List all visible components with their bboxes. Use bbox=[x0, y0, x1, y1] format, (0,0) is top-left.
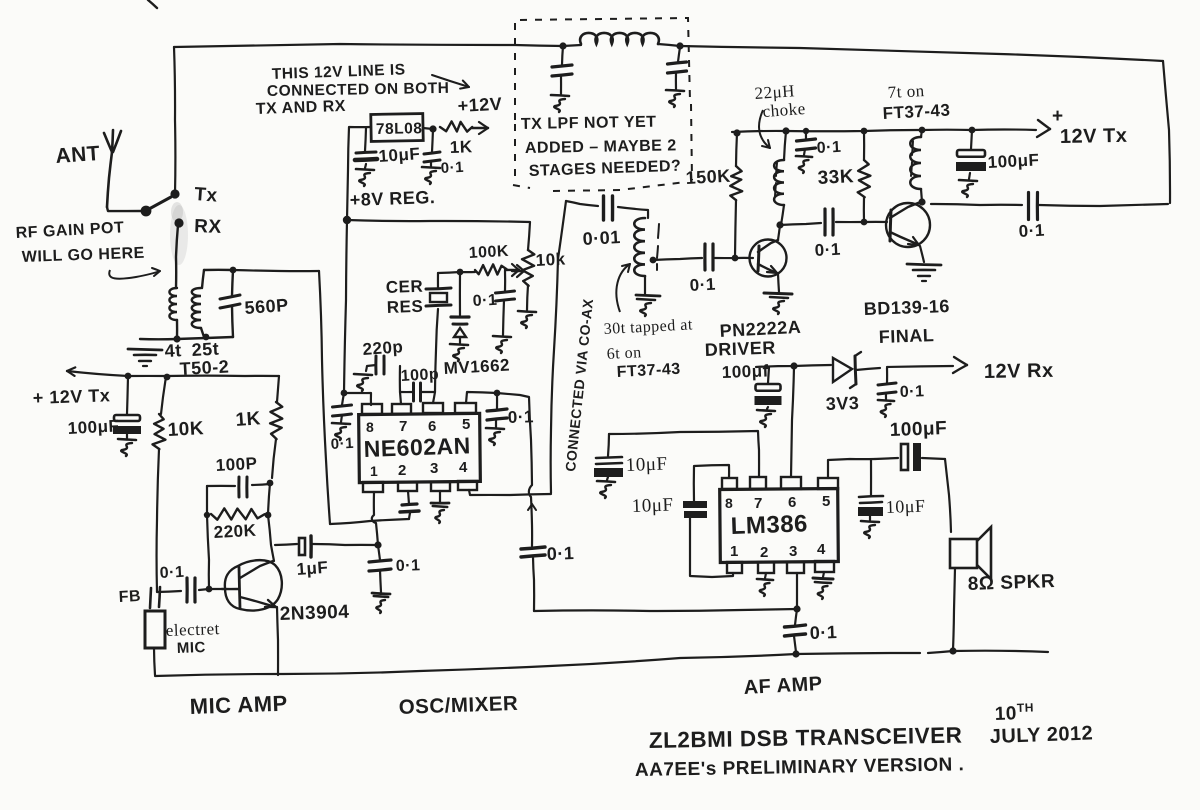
svg-text:10k: 10k bbox=[535, 249, 566, 270]
node Tx bbox=[170, 189, 179, 198]
capacitor 10uF AF in bbox=[594, 434, 623, 498]
svg-text:0·1: 0·1 bbox=[440, 159, 464, 177]
node bbox=[676, 42, 683, 49]
label 10uF bbox=[378, 144, 421, 166]
svg-text:0·1: 0·1 bbox=[159, 564, 184, 582]
capacitor 100p bbox=[207, 477, 270, 515]
capacitor 0.1 regulator bbox=[422, 129, 440, 184]
label TX AND RX bbox=[256, 98, 347, 118]
pin 7 bbox=[750, 477, 766, 489]
pin label 1 bbox=[370, 463, 378, 479]
pin label 3 bbox=[789, 543, 798, 560]
node bbox=[494, 390, 501, 397]
label CER RES bbox=[385, 277, 423, 317]
svg-text:MV1662: MV1662 bbox=[443, 356, 510, 378]
svg-text:FT37-43: FT37-43 bbox=[616, 361, 681, 381]
wire bbox=[1039, 204, 1168, 206]
pin label 5 bbox=[462, 416, 471, 433]
svg-text:NE602AN: NE602AN bbox=[363, 432, 471, 462]
svg-text:5: 5 bbox=[822, 493, 831, 510]
label 25t bbox=[191, 339, 220, 360]
svg-text:3: 3 bbox=[789, 543, 798, 560]
node bbox=[861, 128, 868, 135]
svg-text:10μF: 10μF bbox=[885, 496, 925, 517]
node bbox=[861, 219, 868, 226]
pin label 8 bbox=[366, 419, 374, 435]
wire pin6 up bbox=[433, 309, 438, 403]
op-amp U2 LM386 body bbox=[720, 488, 839, 562]
node bbox=[790, 362, 797, 369]
label NE602AN bbox=[363, 432, 471, 462]
svg-text:100P: 100P bbox=[215, 454, 258, 475]
capacitor 0.1 choke bypass bbox=[796, 131, 816, 173]
svg-text:0·1: 0·1 bbox=[1018, 221, 1045, 241]
svg-text:100μF: 100μF bbox=[987, 150, 1040, 172]
node bbox=[792, 650, 799, 657]
resistor 100K bbox=[460, 264, 507, 275]
svg-text:0·1: 0·1 bbox=[472, 292, 497, 310]
svg-text:TH: TH bbox=[1017, 700, 1034, 715]
svg-text:LM386: LM386 bbox=[730, 510, 808, 540]
transformer 4t winding bbox=[169, 288, 177, 339]
svg-text:1K: 1K bbox=[235, 408, 262, 431]
wire bbox=[170, 202, 188, 265]
svg-text:+8V REG.: +8V REG. bbox=[349, 187, 435, 210]
label 0.1 bbox=[1018, 221, 1045, 241]
arrow to RF gain point bbox=[109, 268, 160, 279]
resistor 220K bbox=[204, 508, 265, 519]
label 1K bbox=[449, 137, 473, 157]
pin label 2 bbox=[398, 462, 407, 479]
svg-text:7t on: 7t on bbox=[887, 81, 925, 102]
svg-text:RES: RES bbox=[386, 297, 423, 317]
capacitor 0.1 RX rail bbox=[878, 368, 896, 417]
wire bbox=[680, 46, 1163, 61]
wire bbox=[207, 515, 209, 589]
svg-text:AF AMP: AF AMP bbox=[743, 673, 823, 699]
svg-text:8: 8 bbox=[725, 495, 733, 511]
arrow +12V TX bbox=[972, 120, 1050, 137]
label 7t on bbox=[887, 81, 925, 102]
pin label 6 bbox=[428, 418, 437, 435]
capacitor 100uF RX rail bbox=[755, 367, 782, 427]
svg-text:3V3: 3V3 bbox=[825, 393, 859, 414]
svg-text:10μF: 10μF bbox=[625, 454, 667, 476]
svg-text:ADDED – MAYBE 2: ADDED – MAYBE 2 bbox=[525, 137, 677, 157]
wire top RF rail bbox=[174, 44, 563, 47]
wire bbox=[347, 127, 371, 220]
node bbox=[429, 125, 436, 132]
svg-text:0·1: 0·1 bbox=[809, 622, 837, 643]
capacitor 0.1 osc bbox=[493, 271, 515, 353]
label T50-2 bbox=[179, 356, 230, 379]
wire bbox=[618, 207, 648, 218]
label MIC AMP bbox=[189, 691, 288, 719]
label 150K bbox=[685, 166, 731, 188]
capacitor 100uF speaker bbox=[875, 443, 945, 471]
svg-text:OSC/MIXER: OSC/MIXER bbox=[398, 692, 518, 719]
label 3V3 bbox=[825, 393, 859, 414]
svg-text:0·1: 0·1 bbox=[546, 543, 574, 564]
label PN2222A bbox=[719, 317, 801, 341]
label 0.1 bbox=[809, 622, 837, 643]
svg-text:FINAL: FINAL bbox=[878, 325, 934, 347]
label DRIVER bbox=[704, 338, 776, 360]
node bbox=[803, 128, 809, 134]
node bbox=[173, 335, 180, 342]
svg-text:1K: 1K bbox=[449, 137, 473, 157]
label 22uH bbox=[754, 81, 796, 103]
svg-text:MIC AMP: MIC AMP bbox=[189, 691, 288, 719]
op-amp U1 NE602AN body bbox=[359, 413, 481, 482]
capacitor 0.1 TX out bbox=[1029, 193, 1038, 220]
capacitor pin2 bypass bbox=[400, 491, 419, 519]
label 1K bbox=[235, 408, 262, 431]
ferrite bead FB bbox=[150, 587, 160, 608]
label 0.01 bbox=[582, 227, 621, 249]
svg-text:1: 1 bbox=[730, 543, 739, 560]
capacitor 0.1 AF coupling bbox=[521, 547, 545, 611]
svg-text:3: 3 bbox=[430, 460, 439, 477]
wire pin5 out bbox=[828, 459, 875, 478]
capacitor 10uF zobel bbox=[858, 460, 883, 538]
label FINAL bbox=[878, 325, 934, 347]
svg-text:FT37-43: FT37-43 bbox=[882, 100, 951, 123]
capacitor 220p bbox=[354, 356, 384, 391]
pin 4 bbox=[458, 481, 477, 490]
capacitor 0.1 pin5 bbox=[486, 393, 507, 445]
wire bbox=[148, 0, 157, 8]
inductor 7t bbox=[910, 130, 922, 202]
label 100p bbox=[215, 454, 258, 475]
pin3 NE602 ground bbox=[431, 491, 449, 523]
label 10uF bbox=[885, 496, 925, 517]
svg-text:6: 6 bbox=[788, 494, 797, 511]
label 12V RX bbox=[984, 360, 1054, 383]
pin label 4 bbox=[459, 459, 468, 476]
pin label 2 bbox=[760, 544, 769, 561]
node bbox=[230, 267, 237, 274]
svg-text:1: 1 bbox=[370, 463, 378, 479]
svg-text:0·1: 0·1 bbox=[689, 275, 716, 295]
node Rx bbox=[174, 218, 183, 227]
wire bbox=[836, 221, 887, 223]
label 10K bbox=[535, 249, 566, 270]
wire pin7 up bbox=[400, 366, 401, 404]
node bbox=[206, 586, 213, 593]
pin label 1 bbox=[730, 543, 739, 560]
wire +8V rail bbox=[347, 220, 530, 250]
svg-text:choke: choke bbox=[762, 99, 806, 121]
label FT37-43 bbox=[882, 100, 951, 123]
wire bbox=[609, 431, 759, 477]
node bbox=[793, 605, 800, 612]
node bbox=[559, 42, 566, 49]
svg-text:TX LPF NOT YET: TX LPF NOT YET bbox=[521, 114, 657, 133]
zener diode 3V3 bbox=[833, 352, 880, 388]
pin 2 bbox=[758, 562, 774, 573]
pin 8 bbox=[722, 478, 737, 489]
svg-text:JULY 2012: JULY 2012 bbox=[989, 722, 1093, 748]
pin label 6 bbox=[788, 494, 797, 511]
transistor Q2 PN2222 driver bbox=[750, 225, 793, 314]
pin label 4 bbox=[817, 541, 826, 558]
pin 5 bbox=[455, 403, 476, 413]
node bbox=[164, 374, 171, 381]
wire bottom rail bbox=[155, 653, 920, 676]
inductor 22uH choke bbox=[774, 131, 786, 225]
potentiometer 10K bbox=[518, 250, 536, 328]
label CONNECTED ON BOTH bbox=[267, 80, 450, 100]
arrow +12V Tx rail bbox=[67, 367, 279, 376]
svg-text:1μF: 1μF bbox=[296, 558, 329, 579]
label RF GAIN POT bbox=[15, 219, 124, 242]
svg-text:4: 4 bbox=[459, 459, 468, 476]
svg-text:CONNECTED ON BOTH: CONNECTED ON BOTH bbox=[267, 80, 450, 100]
capacitor 1uF bbox=[275, 536, 377, 557]
wire hop bbox=[529, 485, 532, 497]
label 0.1 bbox=[472, 292, 497, 310]
pin 6 bbox=[781, 477, 801, 489]
label Rx bbox=[194, 216, 222, 238]
node bbox=[776, 221, 783, 228]
label 10uF bbox=[631, 495, 673, 517]
wire bbox=[268, 483, 274, 561]
svg-text:+12V: +12V bbox=[457, 94, 503, 116]
capacitor 0.1 interstage bbox=[825, 209, 833, 235]
label FB bbox=[118, 588, 141, 606]
pin label 8 bbox=[725, 495, 733, 511]
node bbox=[341, 390, 348, 397]
pin 6 bbox=[423, 403, 443, 413]
label 0.1 bbox=[440, 159, 464, 177]
label 0.1 bbox=[330, 435, 354, 453]
pin4 LM386 ground bbox=[813, 572, 833, 599]
label choke bbox=[762, 99, 806, 121]
wire bbox=[277, 607, 278, 675]
label WILL GO HERE bbox=[22, 245, 146, 266]
resistor 1K regulator bbox=[440, 121, 488, 134]
wire bbox=[319, 271, 330, 524]
wire bbox=[438, 272, 460, 273]
svg-text:8: 8 bbox=[366, 419, 374, 435]
varactor MV1662 bbox=[450, 272, 469, 361]
wire pin1 down bbox=[372, 492, 378, 545]
node bbox=[374, 541, 381, 548]
label Tx bbox=[194, 184, 219, 207]
svg-text:+ 12V Tx: + 12V Tx bbox=[32, 385, 110, 408]
wire +8V vertical bbox=[344, 220, 347, 393]
wire right edge down bbox=[1163, 61, 1170, 203]
node bbox=[732, 255, 739, 262]
label OSC/MIXER bbox=[398, 692, 518, 719]
label +12V TX bbox=[1052, 106, 1128, 148]
label CONNECTED VIA CO-AX bbox=[562, 298, 596, 473]
capacitor 0.1 driver coupling bbox=[705, 244, 713, 270]
svg-text:TX AND RX: TX AND RX bbox=[256, 98, 347, 118]
label STAGES NEEDED? bbox=[529, 158, 682, 180]
svg-text:Tx: Tx bbox=[194, 184, 219, 207]
wire bbox=[928, 651, 1048, 653]
arrow 12V RX bbox=[887, 357, 967, 373]
label +12V Tx bbox=[32, 385, 110, 408]
svg-text:78L08: 78L08 bbox=[376, 120, 423, 138]
capacitor 10uF pin8-1 bbox=[683, 465, 733, 577]
transformer 25t winding bbox=[192, 270, 204, 337]
pin 8 bbox=[362, 404, 382, 414]
pin 5 bbox=[818, 478, 838, 489]
label 100uF bbox=[67, 416, 120, 438]
svg-text:220p: 220p bbox=[362, 337, 404, 359]
wire bbox=[423, 128, 433, 129]
svg-text:CER: CER bbox=[385, 277, 423, 297]
pin label 3 bbox=[430, 460, 439, 477]
label MIC bbox=[177, 639, 207, 657]
wire bbox=[715, 257, 753, 259]
label 100uF bbox=[987, 150, 1040, 172]
pin 1 bbox=[363, 482, 383, 492]
label 78L08 bbox=[376, 120, 423, 138]
label 10uF bbox=[625, 454, 667, 476]
svg-text:ANT: ANT bbox=[55, 142, 101, 168]
label 30t tapped at bbox=[603, 316, 693, 338]
label 0.1 bbox=[814, 240, 841, 260]
svg-text:0·1: 0·1 bbox=[396, 557, 421, 575]
label 100uF bbox=[889, 418, 947, 441]
wire pin4 out bbox=[469, 490, 551, 495]
node bbox=[949, 647, 956, 654]
svg-text:FB: FB bbox=[118, 588, 141, 606]
pin label 7 bbox=[754, 495, 763, 512]
resistor 150K bbox=[730, 133, 742, 258]
svg-text:+: + bbox=[1052, 106, 1064, 127]
resistor 1K bbox=[270, 376, 282, 478]
capacitor 0.1 NE602 supply bbox=[332, 393, 352, 440]
label 33K bbox=[817, 166, 854, 189]
wire bbox=[945, 459, 951, 532]
ground bbox=[128, 349, 162, 366]
wire bbox=[140, 337, 233, 339]
svg-text:100K: 100K bbox=[468, 243, 509, 262]
label BD139-16 bbox=[863, 296, 950, 319]
svg-text:10: 10 bbox=[994, 703, 1017, 725]
wire bbox=[233, 270, 319, 271]
inductor LPF coil bbox=[563, 33, 680, 46]
node bbox=[969, 127, 976, 134]
svg-text:5: 5 bbox=[462, 416, 471, 433]
label ANT bbox=[55, 142, 101, 168]
svg-text:10μF: 10μF bbox=[631, 495, 673, 517]
wire pin3 down bbox=[796, 573, 798, 609]
switch pole bbox=[141, 206, 152, 217]
node 30t tap bbox=[650, 257, 657, 264]
svg-text:0·1: 0·1 bbox=[900, 383, 925, 401]
wire bbox=[344, 393, 371, 405]
label 1uF bbox=[296, 558, 329, 579]
label THIS 12V LINE IS bbox=[272, 61, 406, 83]
wire TX output bbox=[931, 204, 1022, 205]
label +8V REG. bbox=[349, 187, 435, 210]
label 100uF bbox=[721, 361, 769, 382]
svg-text:MIC: MIC bbox=[177, 639, 207, 657]
svg-text:10K: 10K bbox=[167, 418, 204, 441]
svg-text:electret: electret bbox=[165, 619, 220, 640]
wire AF input run bbox=[534, 609, 797, 611]
label 100p bbox=[400, 366, 439, 385]
capacitor 0.01 bbox=[604, 196, 613, 220]
voltage regulator 78L08 box bbox=[371, 114, 423, 142]
wire bbox=[176, 225, 178, 288]
wire 12V TX rail bbox=[732, 130, 972, 132]
node bbox=[265, 512, 272, 519]
label electret bbox=[165, 619, 220, 640]
svg-text:100μf: 100μf bbox=[721, 361, 769, 382]
label 100K bbox=[468, 243, 509, 262]
label date 10th bbox=[994, 700, 1034, 725]
label 560p bbox=[244, 295, 289, 318]
label 2N3904 bbox=[279, 602, 349, 625]
label LM386 bbox=[730, 510, 808, 540]
svg-text:100μF: 100μF bbox=[67, 416, 120, 438]
electret mic bbox=[145, 611, 165, 675]
svg-text:0·1: 0·1 bbox=[816, 139, 841, 157]
label title line 2 bbox=[635, 754, 965, 781]
capacitor 100uF bbox=[113, 376, 141, 456]
label 0.1 bbox=[900, 383, 925, 401]
capacitor 0.1 AF bypass bbox=[785, 609, 806, 652]
pin 1 bbox=[727, 562, 742, 573]
capacitor 100uF TX rail bbox=[956, 130, 986, 197]
svg-text:2: 2 bbox=[398, 462, 407, 479]
node bbox=[919, 127, 926, 134]
svg-text:560P: 560P bbox=[244, 295, 289, 318]
ceramic resonator CER RES bbox=[426, 273, 451, 306]
switch arm bbox=[149, 197, 171, 209]
antenna ANT symbol bbox=[104, 130, 121, 207]
label 10K bbox=[167, 418, 204, 441]
label 0.1 bbox=[689, 275, 716, 295]
wire bbox=[174, 47, 175, 194]
wire bbox=[107, 207, 143, 211]
transistor Q1 2N3904 bbox=[222, 560, 282, 610]
svg-text:0·1: 0·1 bbox=[330, 435, 354, 453]
capacitor LPF 1 bbox=[551, 46, 572, 112]
node bbox=[733, 129, 740, 136]
svg-text:0·01: 0·01 bbox=[582, 227, 621, 249]
node bbox=[203, 334, 210, 341]
wire bbox=[566, 201, 598, 206]
svg-text:150K: 150K bbox=[685, 166, 731, 188]
svg-text:2: 2 bbox=[760, 544, 769, 561]
resistor 10K bbox=[153, 377, 167, 592]
svg-text:10μF: 10μF bbox=[378, 144, 421, 166]
wire bbox=[528, 497, 536, 546]
pin 4 bbox=[815, 561, 834, 572]
svg-text:7: 7 bbox=[399, 418, 408, 435]
wire coax bbox=[551, 201, 566, 493]
svg-text:RX: RX bbox=[194, 216, 222, 238]
wire bbox=[653, 258, 702, 260]
wire 12V RX rail bbox=[756, 365, 831, 367]
capacitor 10uF regulator bbox=[355, 128, 377, 186]
label 4t bbox=[164, 340, 182, 361]
wire mixer out bbox=[466, 392, 497, 403]
svg-text:6: 6 bbox=[428, 418, 437, 435]
wire under NE602 bbox=[330, 519, 409, 524]
svg-text:8Ω SPKR: 8Ω SPKR bbox=[967, 571, 1055, 595]
node bbox=[267, 480, 274, 487]
capacitor 0.1 mixer in bbox=[369, 545, 391, 613]
